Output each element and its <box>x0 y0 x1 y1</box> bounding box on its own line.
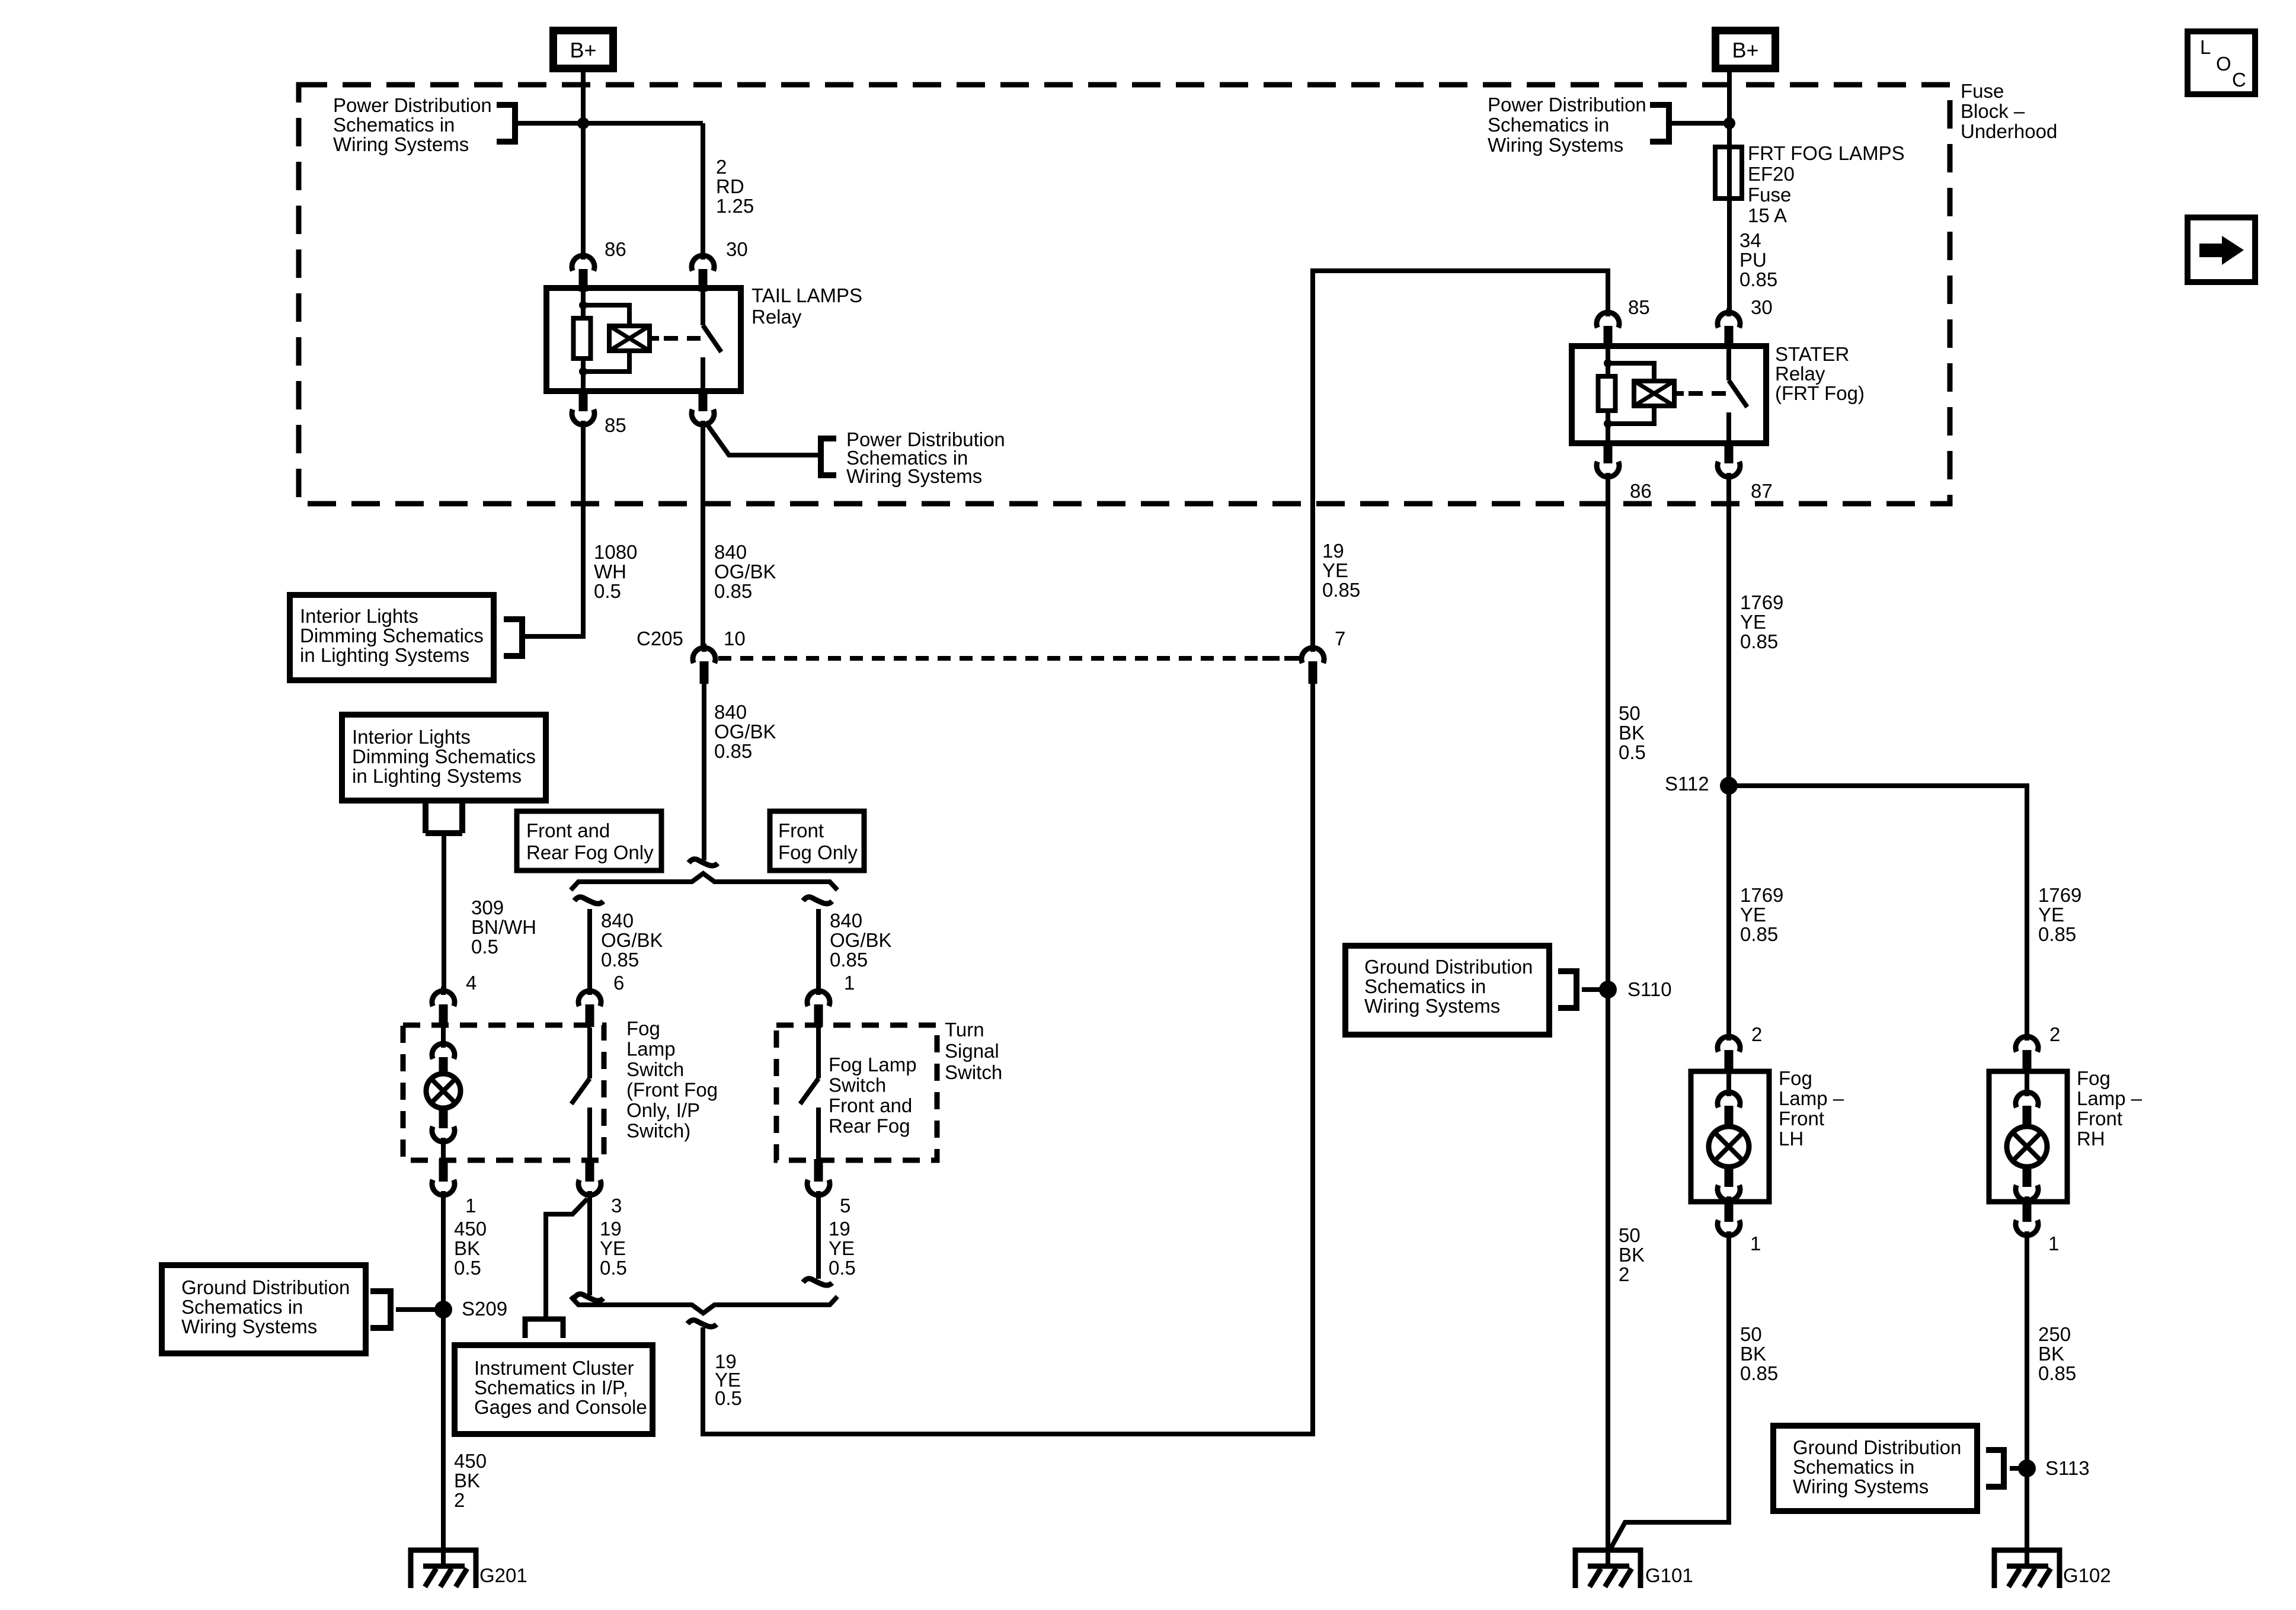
power symbol B+ (right) <box>1716 31 1776 69</box>
bracket to Power Distribution (top left) <box>512 102 518 145</box>
svg-text:30: 30 <box>1751 296 1773 318</box>
svg-text:Fuse: Fuse <box>1961 80 2004 102</box>
svg-text:PU: PU <box>1739 249 1767 271</box>
connector pin 1 (bulb) <box>439 1159 448 1182</box>
svg-text:(FRT Fog): (FRT Fog) <box>1775 382 1865 404</box>
svg-text:BK: BK <box>454 1470 480 1491</box>
svg-text:Relay: Relay <box>752 306 802 328</box>
svg-text:34: 34 <box>1739 229 1761 251</box>
svg-text:2: 2 <box>454 1489 465 1511</box>
svg-text:Gages and Console: Gages and Console <box>474 1396 647 1418</box>
svg-text:50: 50 <box>1619 1224 1641 1246</box>
svg-text:10: 10 <box>724 628 746 649</box>
relay STATER internals <box>1606 346 1610 363</box>
svg-text:O: O <box>2216 53 2231 75</box>
wire 50 BK 0.5 from pin 86 <box>1606 478 1610 1551</box>
svg-text:Schematics in: Schematics in <box>1488 114 1609 136</box>
svg-text:Schematics in: Schematics in <box>1793 1456 1914 1478</box>
wire S112 down to LH lamp <box>1726 786 1731 1035</box>
svg-text:YE: YE <box>829 1237 855 1259</box>
fuse FRT FOG LAMPS EF20 15A <box>1715 147 1742 199</box>
box Ground Distribution (middle) <box>1345 946 1549 1035</box>
svg-text:15 A: 15 A <box>1748 204 1787 226</box>
svg-text:1: 1 <box>1750 1233 1761 1254</box>
svg-text:Signal: Signal <box>945 1040 999 1062</box>
hook right branch start <box>803 897 832 904</box>
svg-text:Lamp –: Lamp – <box>1779 1087 1844 1109</box>
svg-text:Rear Fog Only: Rear Fog Only <box>526 841 654 863</box>
svg-text:0.5: 0.5 <box>471 936 498 958</box>
svg-text:YE: YE <box>1322 559 1348 581</box>
bracket below Interior Lights #2 <box>426 830 462 836</box>
svg-text:Wiring Systems: Wiring Systems <box>333 133 469 155</box>
svg-text:0.5: 0.5 <box>715 1387 742 1409</box>
bracket Ground Distribution (left) <box>388 1288 394 1331</box>
bracket to Power Distribution (mid left) <box>818 436 824 478</box>
wire bracket to S110 <box>1582 987 1608 992</box>
svg-text:7: 7 <box>1335 628 1345 649</box>
svg-text:Front: Front <box>2077 1108 2122 1129</box>
wire horizontal B+ feed (right) <box>1671 121 1729 126</box>
box Front Fog Only <box>770 811 864 870</box>
svg-text:0.85: 0.85 <box>2038 923 2076 945</box>
svg-text:L: L <box>2200 36 2211 58</box>
connector pin 5 <box>814 1159 823 1182</box>
svg-text:Turn: Turn <box>945 1019 984 1041</box>
svg-text:Only, I/P: Only, I/P <box>626 1099 700 1121</box>
svg-text:0.85: 0.85 <box>1740 630 1778 652</box>
box Interior Lights Dimming #2 <box>342 715 546 801</box>
brace splice split (upper) <box>571 873 837 890</box>
svg-text:309: 309 <box>471 897 504 918</box>
svg-text:Instrument Cluster: Instrument Cluster <box>474 1357 634 1379</box>
LOC legend box <box>2188 31 2255 94</box>
svg-text:TAIL LAMPS: TAIL LAMPS <box>752 284 862 306</box>
connector pin 2 (RH) <box>2025 1032 2029 1041</box>
svg-text:2: 2 <box>1751 1023 1762 1045</box>
svg-text:OG/BK: OG/BK <box>830 929 892 951</box>
svg-text:0.85: 0.85 <box>1740 1362 1778 1384</box>
connector pin 30 <box>701 251 705 260</box>
svg-text:G201: G201 <box>479 1564 527 1586</box>
svg-text:G101: G101 <box>1645 1564 1693 1586</box>
svg-text:OG/BK: OG/BK <box>601 929 663 951</box>
wire horizontal B+ feed (left) <box>513 121 703 126</box>
dashed box fog lamp switch front and rear <box>776 1025 937 1160</box>
bracket Interior Lights #1 <box>519 616 525 659</box>
connector C205 pin 10 <box>702 644 706 652</box>
svg-text:Fog: Fog <box>626 1017 660 1039</box>
svg-text:0.85: 0.85 <box>2038 1362 2076 1384</box>
wire 840 OG/BK 0.85 above C205 <box>701 426 705 646</box>
svg-text:Front and: Front and <box>526 820 610 841</box>
svg-text:0.85: 0.85 <box>714 580 752 602</box>
hook pin 5 wire end <box>803 1279 832 1285</box>
wire B+ right down to fuse <box>1727 72 1732 148</box>
svg-text:Front: Front <box>1779 1108 1824 1129</box>
svg-text:YE: YE <box>1740 611 1766 633</box>
svg-text:0.5: 0.5 <box>594 580 621 602</box>
svg-text:YE: YE <box>2038 904 2064 926</box>
connector pin 30 (STATER) <box>1726 308 1731 316</box>
svg-text:19: 19 <box>600 1218 622 1240</box>
wire 50 BK 0.85 LH lamp to ground <box>1610 1237 1729 1550</box>
svg-text:RH: RH <box>2077 1128 2105 1150</box>
dashed connector line into 7 <box>1262 656 1298 661</box>
svg-text:840: 840 <box>714 541 747 563</box>
svg-text:Front: Front <box>778 820 824 841</box>
wire bulb to pin 1 <box>441 1142 446 1163</box>
fog lamp front RH <box>1989 1071 2067 1202</box>
svg-text:S112: S112 <box>1665 773 1709 795</box>
svg-text:BK: BK <box>454 1237 480 1259</box>
svg-text:19: 19 <box>829 1218 850 1240</box>
svg-text:Block –: Block – <box>1961 100 2025 122</box>
svg-text:Underhood: Underhood <box>1961 120 2057 142</box>
svg-text:Fog: Fog <box>1779 1067 1812 1089</box>
wire bracket to S113 <box>2010 1466 2027 1471</box>
wire bracket to S209 <box>396 1307 443 1312</box>
svg-text:S110: S110 <box>1627 978 1672 1000</box>
wire pin 5 down to merge brace <box>816 1196 821 1279</box>
node junction on B+ feed (left) <box>577 117 589 129</box>
svg-text:50: 50 <box>1740 1323 1762 1345</box>
svg-text:Interior Lights: Interior Lights <box>300 605 418 627</box>
svg-text:0.85: 0.85 <box>1322 579 1360 601</box>
wire 250 BK 0.85 RH lamp to ground <box>2025 1237 2029 1551</box>
svg-text:Ground Distribution: Ground Distribution <box>181 1276 350 1298</box>
svg-text:OG/BK: OG/BK <box>714 721 776 742</box>
hook left branch start <box>574 897 603 904</box>
svg-text:0.85: 0.85 <box>1740 923 1778 945</box>
wire S112 branch to RH lamp <box>1729 786 2027 1035</box>
svg-text:LH: LH <box>1779 1128 1803 1150</box>
svg-text:OG/BK: OG/BK <box>714 561 776 582</box>
svg-text:Fog: Fog <box>2077 1067 2110 1089</box>
wire 2 RD 1.25 down to relay pin 30 <box>701 123 705 255</box>
wire pin4 to bulb connector <box>441 1028 446 1043</box>
svg-text:Schematics in: Schematics in <box>181 1296 303 1318</box>
ground G201 <box>411 1550 476 1588</box>
svg-text:19: 19 <box>1322 540 1344 562</box>
svg-text:B+: B+ <box>1732 38 1758 62</box>
svg-text:Wiring Systems: Wiring Systems <box>1793 1475 1929 1497</box>
svg-text:S113: S113 <box>2045 1457 2090 1479</box>
svg-text:G102: G102 <box>2063 1564 2111 1586</box>
svg-text:C205: C205 <box>637 628 683 649</box>
svg-text:BK: BK <box>1740 1343 1766 1365</box>
svg-text:1080: 1080 <box>594 541 637 563</box>
power symbol B+ (left) <box>554 31 613 69</box>
svg-text:B+: B+ <box>570 38 596 62</box>
box Interior Lights Dimming #1 <box>290 595 494 680</box>
box Ground Distribution (bottom right) <box>1773 1426 1977 1511</box>
wire pin 3 to instrument cluster fork <box>546 1199 587 1317</box>
svg-text:1: 1 <box>2048 1233 2059 1254</box>
svg-text:450: 450 <box>454 1450 487 1472</box>
svg-text:840: 840 <box>601 910 634 932</box>
svg-text:in Lighting Systems: in Lighting Systems <box>352 765 522 787</box>
connector pin 6 <box>587 987 592 995</box>
svg-text:Lamp –: Lamp – <box>2077 1087 2142 1109</box>
svg-text:Ground Distribution: Ground Distribution <box>1793 1436 1961 1458</box>
svg-text:Power Distribution: Power Distribution <box>1488 94 1646 116</box>
svg-text:Power Distribution: Power Distribution <box>333 94 492 116</box>
wire 1769 YE 0.85 from pin 87 <box>1726 478 1731 786</box>
svg-text:Schematics in: Schematics in <box>333 114 455 136</box>
svg-text:0.85: 0.85 <box>830 949 868 971</box>
svg-text:2: 2 <box>2049 1023 2060 1045</box>
switch contact fog lamp switch <box>587 1028 592 1078</box>
svg-text:250: 250 <box>2038 1323 2071 1345</box>
relay TAIL LAMPS box <box>546 288 741 391</box>
box Front and Rear Fog Only <box>517 811 661 870</box>
brace splice merge (lower) <box>571 1297 837 1313</box>
svg-text:S209: S209 <box>462 1298 507 1320</box>
svg-text:50: 50 <box>1619 702 1641 724</box>
svg-text:Relay: Relay <box>1775 363 1825 385</box>
wire pin 3 down to merge brace <box>587 1196 592 1295</box>
svg-text:0.5: 0.5 <box>600 1257 627 1279</box>
svg-text:86: 86 <box>605 238 626 260</box>
svg-text:1769: 1769 <box>1740 591 1783 613</box>
svg-text:Dimming Schematics: Dimming Schematics <box>352 745 536 767</box>
svg-text:30: 30 <box>726 238 748 260</box>
svg-text:Wiring Systems: Wiring Systems <box>1364 995 1500 1017</box>
svg-text:450: 450 <box>454 1218 487 1240</box>
dashed box Fuse Block - Underhood <box>299 85 1950 504</box>
dashed box fog lamp switch (left) <box>403 1025 604 1160</box>
svg-text:0.5: 0.5 <box>454 1257 481 1279</box>
wire 309 BN/WH 0.5 <box>442 832 446 990</box>
svg-text:BN/WH: BN/WH <box>471 916 536 938</box>
svg-text:1769: 1769 <box>2038 884 2081 906</box>
wire 19 YE 0.5 merged to right riser <box>703 678 1313 1434</box>
svg-text:Wiring Systems: Wiring Systems <box>1488 134 1623 156</box>
connector pin 86 (STATER) <box>1604 441 1613 463</box>
connector 7 (C205) <box>1310 644 1315 652</box>
connector pin 1 (right switch) <box>816 987 821 995</box>
fog lamp front LH <box>1691 1071 1769 1202</box>
hook merged wire start <box>687 1320 717 1327</box>
svg-text:Switch: Switch <box>945 1061 1002 1083</box>
ground G101 <box>1575 1550 1641 1588</box>
svg-text:6: 6 <box>613 972 624 994</box>
wire 450 BK to ground G201 <box>441 1196 446 1551</box>
fork to instrument cluster <box>525 1319 563 1338</box>
arrow legend box <box>2188 217 2255 282</box>
svg-text:YE: YE <box>600 1237 626 1259</box>
svg-text:Switch: Switch <box>626 1058 684 1080</box>
dashed connector line C205 to 7 <box>718 656 1299 661</box>
splice S112 <box>1720 777 1738 795</box>
svg-text:Fog Only: Fog Only <box>778 841 858 863</box>
wire relay 85 up and left to riser <box>1313 271 1608 646</box>
svg-text:1: 1 <box>465 1195 476 1217</box>
svg-text:840: 840 <box>830 910 862 932</box>
wire B+ left down to relay pin 86 <box>581 72 586 255</box>
svg-text:Ground Distribution: Ground Distribution <box>1364 956 1533 978</box>
node junction on B+ feed (right) <box>1723 117 1735 129</box>
svg-text:Fuse: Fuse <box>1748 184 1791 206</box>
bracket Ground Distribution (middle) <box>1574 968 1579 1011</box>
connector pin 85 <box>579 389 588 411</box>
wire 840 OG/BK 0.85 below C205 <box>702 678 706 860</box>
connector bulb top (inside switch) <box>441 1039 446 1048</box>
hook pin 3 wire end <box>574 1294 603 1301</box>
svg-text:BK: BK <box>1619 1244 1645 1266</box>
relay STATER box <box>1572 346 1766 443</box>
connector pin 85 (STATER) <box>1606 308 1610 316</box>
connector bulb bottom (inside switch) <box>439 1106 448 1128</box>
connector pin 4 <box>441 987 446 995</box>
svg-text:Schematics in I/P,: Schematics in I/P, <box>474 1377 628 1398</box>
svg-text:BK: BK <box>2038 1343 2064 1365</box>
connector relay output (to C205) <box>699 389 708 411</box>
svg-text:Front and: Front and <box>829 1094 912 1116</box>
svg-text:Rear Fog: Rear Fog <box>829 1115 910 1137</box>
bracket Ground Distribution (bottom right) <box>2001 1447 2007 1490</box>
box Instrument Cluster Schematics <box>455 1345 653 1434</box>
svg-text:0.85: 0.85 <box>714 740 752 762</box>
svg-text:840: 840 <box>714 701 747 723</box>
relay TAIL LAMPS internals <box>581 288 586 305</box>
svg-text:Schematics in: Schematics in <box>1364 975 1486 997</box>
ground G102 <box>1994 1550 2060 1588</box>
svg-text:Switch): Switch) <box>626 1120 690 1142</box>
connector pin 3 <box>586 1159 594 1182</box>
splice S110 <box>1599 981 1617 998</box>
wire 34 PU 0.85 <box>1727 199 1732 312</box>
svg-text:STATER: STATER <box>1775 343 1849 365</box>
svg-text:YE: YE <box>1740 904 1766 926</box>
svg-text:85: 85 <box>605 414 626 436</box>
svg-text:Dimming Schematics: Dimming Schematics <box>300 625 484 646</box>
box Ground Distribution (left) <box>162 1265 366 1353</box>
svg-text:Switch: Switch <box>829 1074 886 1096</box>
svg-text:2: 2 <box>1619 1263 1629 1285</box>
svg-text:C: C <box>2232 69 2246 91</box>
svg-text:0.5: 0.5 <box>1619 741 1646 763</box>
svg-text:(Front Fog: (Front Fog <box>626 1079 718 1101</box>
indicator bulb (switch illumination) <box>426 1074 461 1108</box>
svg-text:FRT FOG LAMPS: FRT FOG LAMPS <box>1748 142 1905 164</box>
splice S209 <box>434 1301 452 1318</box>
svg-text:5: 5 <box>840 1195 850 1217</box>
svg-text:BK: BK <box>1619 722 1645 744</box>
wire left branch 840 OG/BK <box>587 909 592 990</box>
wire right branch 840 OG/BK <box>816 909 821 990</box>
svg-text:WH: WH <box>594 561 626 582</box>
wire 1080 WH 0.5 <box>525 426 583 636</box>
svg-text:Wiring Systems: Wiring Systems <box>846 465 982 487</box>
switch contact front and rear fog <box>816 1028 821 1078</box>
svg-text:0.85: 0.85 <box>601 949 639 971</box>
connector pin 86 <box>581 251 586 260</box>
svg-text:Interior Lights: Interior Lights <box>352 726 471 748</box>
svg-text:1769: 1769 <box>1740 884 1783 906</box>
svg-text:Fog Lamp: Fog Lamp <box>829 1054 917 1076</box>
svg-text:87: 87 <box>1751 480 1773 502</box>
splice S113 <box>2018 1459 2036 1477</box>
hook wire end above split brace <box>689 859 718 866</box>
svg-text:4: 4 <box>466 972 477 994</box>
svg-text:Wiring Systems: Wiring Systems <box>181 1315 317 1337</box>
svg-text:0.5: 0.5 <box>829 1257 856 1279</box>
svg-text:EF20: EF20 <box>1748 163 1795 185</box>
bracket to Power Distribution (top right) <box>1666 102 1672 145</box>
svg-text:3: 3 <box>611 1195 622 1217</box>
svg-text:85: 85 <box>1628 296 1650 318</box>
svg-text:Lamp: Lamp <box>626 1038 676 1060</box>
connector pin 2 (LH) <box>1726 1032 1731 1041</box>
svg-text:RD: RD <box>716 175 744 197</box>
svg-text:2: 2 <box>716 156 727 178</box>
svg-text:in Lighting Systems: in Lighting Systems <box>300 644 469 666</box>
svg-text:0.85: 0.85 <box>1739 268 1777 290</box>
svg-text:1: 1 <box>844 972 855 994</box>
svg-text:1.25: 1.25 <box>716 195 754 217</box>
svg-text:86: 86 <box>1630 480 1652 502</box>
wire relay 87 output diagonal to bracket <box>705 422 818 455</box>
connector pin 87 (STATER) <box>1725 441 1734 463</box>
